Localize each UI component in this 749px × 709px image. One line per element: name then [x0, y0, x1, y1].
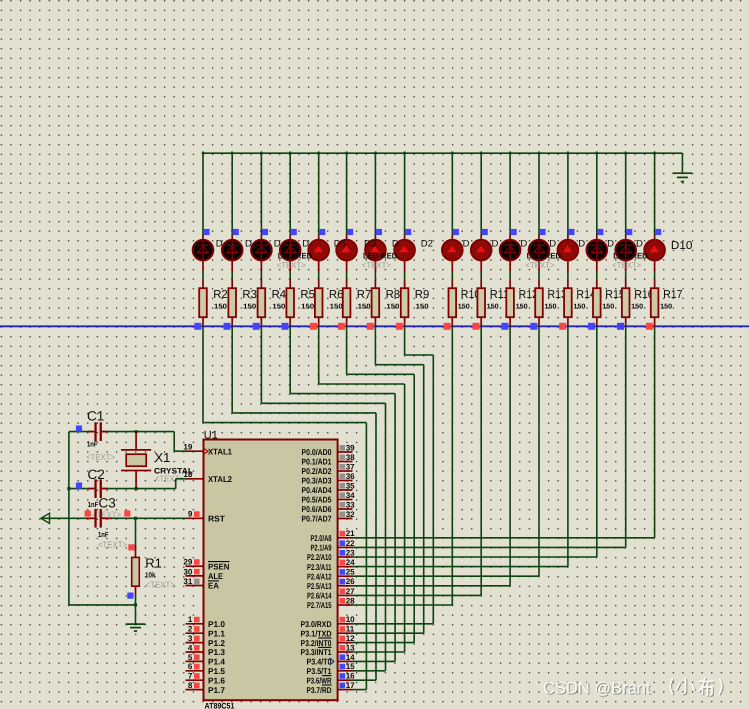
- svg-text:26: 26: [346, 577, 355, 586]
- pin-state square LED D top col 1: [203, 229, 209, 235]
- pin 2 P1.1 lead: [186, 632, 204, 634]
- pin-state square resistor R8 bottom: [367, 323, 374, 330]
- pin-state square resistor R6 bottom: [310, 323, 317, 330]
- LED D pin top col 9: [451, 235, 453, 241]
- pin-state square resistor R14 bottom: [559, 323, 566, 330]
- svg-text:150: 150: [330, 303, 343, 310]
- pin 7 P1.6 lead: [186, 679, 204, 681]
- pin-state square pin 33: [340, 502, 346, 508]
- pin-state square pin 15: [340, 664, 346, 670]
- watermark CSDN @Brant (xiaobu): [544, 679, 723, 699]
- pin 21 P2.0/A8 lead: [338, 537, 353, 539]
- svg-text:<TEXT>: <TEXT>: [526, 260, 555, 270]
- pin-state square pin 7: [194, 673, 200, 679]
- svg-text:AT89C51: AT89C51: [205, 702, 235, 709]
- capacitor C1: [88, 422, 108, 441]
- pin 18 XTAL2 lead: [186, 478, 204, 480]
- LED col 14 (off): [587, 239, 608, 261]
- LED col 15 (off): [615, 239, 636, 261]
- wire resistor R8 to MCU col 7: [374, 326, 376, 364]
- junction node col 11: [509, 152, 511, 155]
- pin 28 P2.7/A15 lead: [338, 604, 353, 606]
- pin-state square pin 2: [194, 626, 200, 632]
- pin 1 P1.0 lead: [186, 623, 204, 625]
- LED col 13 (lit): [558, 240, 579, 261]
- junction node col 10: [480, 152, 482, 155]
- junction node col 15: [625, 152, 627, 155]
- wire LED column 12 top: [538, 152, 540, 235]
- pin 6 P1.5 lead: [186, 670, 204, 672]
- svg-text:<TEXT>: <TEXT>: [277, 260, 306, 270]
- svg-text:<TEXT>: <TEXT>: [612, 260, 641, 270]
- svg-text:28: 28: [346, 596, 355, 605]
- resistor R11 body col 10: [477, 288, 485, 317]
- svg-text:8: 8: [188, 681, 193, 690]
- LED D pin top col 8: [404, 235, 406, 241]
- wire resistor R2 to MCU col 1: [202, 326, 204, 422]
- resistor R2 body col 1: [199, 288, 207, 317]
- wire LED column 16 top: [654, 152, 656, 235]
- resistor R12 body col 11: [506, 288, 514, 317]
- pin-state square pin 38: [340, 455, 346, 461]
- svg-text:D: D: [578, 239, 585, 250]
- pin 5 P1.4 lead: [186, 660, 204, 662]
- pin-state square LED D top col 6: [347, 229, 353, 235]
- svg-text:35: 35: [346, 481, 355, 490]
- svg-text:D: D: [636, 239, 643, 250]
- svg-text:22: 22: [346, 539, 355, 548]
- LED D pin top col 6: [346, 235, 348, 241]
- pin 15 P3.5/T1 lead: [338, 670, 353, 672]
- svg-text:R2: R2: [213, 289, 228, 301]
- svg-text:150: 150: [301, 303, 314, 310]
- resistor R14 pin bottom col 13: [567, 317, 569, 326]
- pin-state square LED D top col 7: [376, 229, 382, 235]
- svg-text:23: 23: [346, 548, 355, 557]
- LED D pin top col 14: [596, 235, 598, 241]
- pin 33 P0.6/AD6 lead: [338, 508, 353, 510]
- pin 25 P2.4/A12 lead: [338, 575, 353, 577]
- svg-text:34: 34: [346, 491, 355, 500]
- wire resistor R11 to MCU col 10: [480, 326, 482, 595]
- wire left vertical (C1/C2 common): [68, 432, 70, 605]
- resistor R6 body col 5: [315, 288, 323, 317]
- svg-text:D: D: [274, 239, 281, 250]
- wire bottom rail: [69, 604, 136, 606]
- ground (top right): [673, 173, 693, 181]
- svg-text:ALE: ALE: [208, 571, 223, 581]
- svg-text:150: 150: [602, 303, 614, 310]
- svg-text:150: 150: [516, 303, 528, 310]
- svg-text:P0.1/AD1: P0.1/AD1: [302, 457, 332, 467]
- LED D pin bottom / wire to resistor col 4: [289, 261, 291, 272]
- svg-text:C2: C2: [88, 467, 105, 482]
- svg-text:39: 39: [346, 443, 355, 452]
- pin-state square resistor R16 bottom: [617, 323, 624, 330]
- pin-state square LED D top col 5: [319, 229, 325, 235]
- ground (reset circuit): [126, 624, 146, 631]
- pin 37 P0.2/AD2 lead: [338, 470, 353, 472]
- svg-text:D10: D10: [671, 240, 693, 252]
- LED D pin bottom / wire to resistor col 9: [451, 261, 453, 272]
- pin-state square resistor R15 bottom: [588, 323, 595, 330]
- junction node crystal top: [135, 430, 138, 433]
- svg-text:R7: R7: [357, 289, 372, 301]
- svg-text:D: D: [549, 239, 556, 250]
- LED col 1 (off): [193, 239, 214, 261]
- pin 14 P3.4/T0 lead: [338, 660, 353, 662]
- svg-text:C3: C3: [99, 496, 116, 511]
- LED D pin bottom / wire to resistor col 16: [654, 261, 656, 272]
- resistor R14 body col 13: [564, 288, 572, 317]
- pin-state square C3 left: [85, 510, 91, 516]
- pin-state square LED D top col 16: [655, 229, 661, 235]
- svg-text:R4: R4: [272, 289, 287, 301]
- pin-state square pin 8: [194, 683, 200, 689]
- wire to ground: [681, 153, 683, 173]
- wire LED column 13 top: [567, 152, 569, 235]
- svg-text:P2.6/A14: P2.6/A14: [307, 591, 332, 601]
- pin-state square pin 28: [340, 598, 346, 604]
- svg-text:150: 150: [243, 303, 256, 310]
- wire resistor R15 to MCU col 14: [596, 326, 598, 557]
- LED D pin bottom / wire to resistor col 13: [567, 261, 569, 272]
- svg-text:P0.4/AD4: P0.4/AD4: [302, 485, 332, 495]
- wire LED column 5 top: [318, 152, 320, 235]
- svg-text:16: 16: [346, 672, 355, 681]
- pin-state square pin 32: [340, 512, 346, 518]
- pin-state square LED D top col 13: [568, 229, 574, 235]
- wire LED column 7 top: [374, 152, 376, 235]
- LED D pin bottom / wire to resistor col 8: [404, 261, 406, 272]
- junction node col 7: [374, 152, 376, 155]
- svg-text:29: 29: [183, 558, 192, 567]
- wire LED column 15 top: [625, 152, 627, 235]
- pin-state square pin 10: [340, 617, 346, 623]
- capacitor C2: [88, 479, 108, 498]
- svg-text:D2: D2: [421, 239, 433, 250]
- svg-text:2: 2: [188, 625, 193, 634]
- svg-text:R3: R3: [242, 289, 257, 301]
- wire C2 row rail: [69, 488, 94, 490]
- wire LED column 3 top: [260, 152, 262, 235]
- LED D pin top col 5: [318, 235, 320, 241]
- resistor R11 pin bottom col 10: [480, 317, 482, 326]
- pin 26 P2.5/A13 lead: [338, 585, 353, 587]
- pin-state square C1 left: [76, 426, 82, 432]
- pin-state square pin 24: [340, 560, 346, 566]
- svg-text:1nF: 1nF: [87, 439, 98, 448]
- svg-text:10: 10: [346, 615, 355, 624]
- pin-state square LED D top col 11: [511, 229, 517, 235]
- pin-state square pin 13: [340, 645, 346, 651]
- wire VCC/common top rail: [203, 152, 682, 154]
- junction node col 14: [596, 152, 598, 155]
- pin 30 ALE lead: [186, 575, 204, 577]
- pin-state square pin 22: [340, 540, 346, 546]
- LED D pin top col 13: [567, 235, 569, 241]
- svg-text:27: 27: [346, 587, 355, 596]
- svg-text:R8: R8: [386, 289, 401, 301]
- resistor R9 body col 8: [401, 288, 409, 317]
- LED D pin bottom / wire to resistor col 1: [202, 261, 204, 272]
- resistor R6 pin bottom col 5: [318, 317, 320, 326]
- wire LED column 9 top: [451, 152, 453, 235]
- resistor R7 body col 6: [343, 288, 351, 317]
- svg-text:150: 150: [458, 303, 470, 310]
- pin-state square pin 36: [340, 474, 346, 480]
- svg-text:<TEXT>: <TEXT>: [98, 540, 127, 550]
- wire resistor R14 to MCU col 13: [567, 326, 569, 566]
- svg-text:EA: EA: [208, 581, 219, 591]
- junction node col 3: [260, 152, 262, 155]
- resistor R8 pin bottom col 7: [374, 317, 376, 326]
- pin 31 EA lead: [186, 585, 204, 587]
- svg-text:150: 150: [272, 303, 285, 310]
- svg-text:<TEXT>: <TEXT>: [86, 452, 115, 462]
- svg-text:R9: R9: [415, 289, 430, 301]
- svg-text:24: 24: [346, 558, 355, 567]
- pin 9 RST lead: [186, 517, 204, 519]
- svg-text:150: 150: [573, 303, 585, 310]
- svg-text:19: 19: [183, 443, 192, 452]
- LED col 11 (off): [500, 239, 521, 261]
- wire C1 row to XTAL1: [173, 432, 175, 452]
- pin 10 P3.0/RXD lead: [338, 623, 353, 625]
- pin-state square resistor R3 bottom: [224, 323, 231, 330]
- wire resistor R16 to MCU col 15: [625, 326, 627, 547]
- svg-text:P0.5/AD5: P0.5/AD5: [302, 495, 332, 505]
- svg-text:150: 150: [358, 303, 371, 310]
- pin-state square pin 12: [340, 636, 346, 642]
- wire RST row: [41, 517, 94, 519]
- wire resistor R6 to MCU col 5: [318, 326, 320, 384]
- svg-text:P0.2/AD2: P0.2/AD2: [302, 466, 332, 476]
- svg-text:XTAL2: XTAL2: [208, 474, 232, 484]
- svg-text:P2.7/A15: P2.7/A15: [307, 600, 332, 610]
- pin-state square LED D top col 9: [453, 229, 459, 235]
- LED col 9 (lit): [442, 240, 463, 261]
- svg-text:P2.5/A13: P2.5/A13: [307, 581, 332, 591]
- wire C1 row rail: [69, 431, 94, 433]
- svg-text:D: D: [392, 239, 399, 250]
- svg-text:32: 32: [346, 510, 355, 519]
- svg-text:11: 11: [346, 625, 355, 634]
- pin-state square pin 35: [340, 483, 346, 489]
- svg-text:D: D: [607, 239, 614, 250]
- junction node C2 rail at left vertical: [67, 487, 70, 490]
- svg-text:14: 14: [346, 653, 355, 662]
- svg-text:P0.7/AD7: P0.7/AD7: [302, 514, 332, 524]
- LED D pin top col 11: [509, 235, 511, 241]
- LED col 2 (off): [222, 239, 243, 261]
- svg-text:33: 33: [346, 500, 355, 509]
- pin-state square pin 3: [194, 636, 200, 642]
- op-amp U1 microcontroller AT89C51 body: [204, 440, 338, 701]
- pin-state square LED D top col 2: [233, 229, 239, 235]
- resistor R7 pin bottom col 6: [346, 317, 348, 326]
- svg-text:37: 37: [346, 462, 355, 471]
- pin-state square C3 right: [124, 510, 130, 516]
- svg-text:D: D: [245, 239, 252, 250]
- junction node R1 top: [134, 517, 137, 520]
- svg-text:38: 38: [346, 453, 355, 462]
- pin-state square LED D top col 15: [626, 229, 632, 235]
- LED D pin top col 16: [654, 235, 656, 241]
- svg-text:P0.6/AD6: P0.6/AD6: [302, 504, 332, 514]
- LED D pin bottom / wire to resistor col 6: [346, 261, 348, 272]
- pin-state square LED D top col 14: [597, 229, 603, 235]
- pin 35 P0.4/AD4 lead: [338, 489, 353, 491]
- LED D pin top col 4: [289, 235, 291, 241]
- pin 23 P2.2/A10 lead: [338, 556, 353, 558]
- svg-text:R6: R6: [329, 289, 344, 301]
- junction node bottom rail: [134, 603, 137, 606]
- sheet border line (blue): [0, 325, 749, 327]
- pin-state square pin 34: [340, 493, 346, 499]
- wire LED column 8 top: [404, 152, 406, 235]
- LED col 5 (lit): [308, 240, 329, 261]
- junction node col 1: [202, 152, 204, 155]
- pin-state square LED D top col 10: [482, 229, 488, 235]
- svg-text:36: 36: [346, 472, 355, 481]
- LED D pin top col 2: [231, 235, 233, 241]
- pin-state square LED D top col 4: [291, 229, 297, 235]
- pin 14 T0 chevron: [330, 658, 335, 665]
- resistor R10 pin bottom col 9: [451, 317, 453, 326]
- pin-state square pin 1: [194, 617, 200, 623]
- pin-state square pin 25: [340, 569, 346, 575]
- svg-text:R17: R17: [663, 289, 683, 301]
- wire LED column 1 top: [202, 152, 204, 235]
- svg-text:D: D: [302, 239, 309, 250]
- pin-state square pin 21: [340, 531, 346, 537]
- svg-text:150: 150: [660, 303, 672, 310]
- pin-state square pin 4: [194, 645, 200, 651]
- svg-text:D: D: [463, 239, 470, 250]
- svg-text:D3: D3: [364, 239, 376, 250]
- svg-text:P2.0/A8: P2.0/A8: [311, 533, 332, 543]
- LED D pin bottom / wire to resistor col 2: [231, 261, 233, 272]
- LED D pin bottom / wire to resistor col 15: [625, 261, 627, 272]
- svg-text:7: 7: [188, 672, 193, 681]
- pin-state square resistor R10 bottom: [444, 323, 451, 330]
- LED col 3 (off): [251, 239, 272, 261]
- pin-state square pin 37: [340, 464, 346, 470]
- svg-text:C1: C1: [87, 409, 104, 424]
- resistor R10 body col 9: [449, 288, 457, 317]
- svg-text:25: 25: [346, 568, 355, 577]
- LED col 10 (lit): [471, 240, 492, 261]
- junction node col 2: [231, 152, 233, 155]
- wire resistor R13 to MCU col 12: [538, 326, 540, 576]
- resistor R17 pin bottom col 16: [654, 317, 656, 326]
- svg-text:<TEXT>: <TEXT>: [146, 579, 175, 589]
- svg-text:150: 150: [386, 303, 399, 310]
- svg-text:R1: R1: [145, 555, 162, 570]
- capacitor C3: [86, 509, 112, 528]
- svg-text:R5: R5: [300, 289, 315, 301]
- XTAL1 clock chevron: [204, 449, 208, 454]
- pin-state square pin 30: [194, 569, 200, 575]
- pin 17 P3.7/RD lead: [338, 689, 353, 691]
- pin 34 P0.5/AD5 lead: [338, 499, 353, 501]
- pin 22 P2.1/A9 lead: [338, 546, 353, 548]
- LED D pin top col 1: [202, 235, 204, 241]
- wire resistor R7 to MCU col 6: [346, 326, 348, 374]
- resistor R5 pin bottom col 4: [289, 317, 291, 326]
- LED D pin bottom / wire to resistor col 11: [509, 261, 511, 272]
- svg-text:P0.3/AD3: P0.3/AD3: [302, 476, 332, 486]
- LED col 4 (off): [280, 239, 301, 261]
- svg-text:P1.7: P1.7: [208, 685, 225, 695]
- svg-text:PSEN: PSEN: [208, 561, 230, 571]
- pin-state square R1 bottom: [127, 593, 133, 599]
- resistor R9 pin bottom col 8: [404, 317, 406, 326]
- junction node col 13: [567, 152, 569, 155]
- resistor R16 pin bottom col 15: [625, 317, 627, 326]
- svg-text:3: 3: [188, 634, 193, 643]
- terminal arrow (RST net): [41, 513, 50, 523]
- pin 3 P1.2 lead: [186, 642, 204, 644]
- svg-text:D5: D5: [334, 239, 346, 250]
- resistor R1: [132, 545, 140, 595]
- pin-state square pin 16: [340, 673, 346, 679]
- svg-text:12: 12: [346, 634, 355, 643]
- LED col 16 (lit): [644, 240, 665, 261]
- wire resistor R10 to MCU col 9: [451, 326, 453, 605]
- svg-text:15: 15: [346, 662, 355, 671]
- svg-text:5: 5: [188, 653, 193, 662]
- LED D pin bottom / wire to resistor col 10: [480, 261, 482, 272]
- pin 38 P0.1/AD1 lead: [338, 461, 353, 463]
- wire resistor R12 to MCU col 11: [509, 326, 511, 586]
- svg-text:P2.4/A12: P2.4/A12: [307, 571, 332, 581]
- svg-text:13: 13: [346, 643, 355, 652]
- LED col 12 (off): [529, 239, 550, 261]
- pin-state square resistor R7 bottom: [338, 323, 345, 330]
- pin 29 PSEN lead: [186, 565, 204, 567]
- svg-text:6: 6: [188, 662, 193, 671]
- wire resistor R17 to MCU col 16: [654, 326, 656, 538]
- pin-state square pin 27: [340, 588, 346, 594]
- pin 36 P0.3/AD3 lead: [338, 480, 353, 482]
- pin 24 P2.3/A11 lead: [338, 566, 353, 568]
- svg-text:RST: RST: [208, 514, 226, 524]
- pin-state square resistor R5 bottom: [282, 323, 289, 330]
- svg-text:P2.3/A11: P2.3/A11: [307, 562, 332, 572]
- svg-text:D: D: [492, 239, 499, 250]
- pin 11 P3.1/TXD lead: [338, 632, 353, 634]
- pin-state square LED D top col 3: [262, 229, 268, 235]
- LED D pin top col 7: [374, 235, 376, 241]
- crystal X1: [121, 432, 151, 489]
- resistor R16 body col 15: [622, 288, 630, 317]
- svg-text:150: 150: [416, 303, 429, 310]
- svg-text:D: D: [520, 239, 527, 250]
- LED col 8 (lit): [394, 240, 415, 261]
- svg-text:U1: U1: [204, 430, 218, 442]
- pin 39 P0.0/AD0 lead: [338, 451, 353, 453]
- pin 19 XTAL1 lead: [186, 450, 204, 452]
- LED D pin bottom / wire to resistor col 5: [318, 261, 320, 272]
- junction node col 9: [451, 152, 453, 155]
- resistor R15 pin bottom col 14: [596, 317, 598, 326]
- wire C2 row to XTAL2: [175, 479, 177, 489]
- resistor R5 body col 4: [286, 288, 294, 317]
- LED col 7 (lit): [365, 240, 386, 261]
- svg-text:150: 150: [214, 303, 227, 310]
